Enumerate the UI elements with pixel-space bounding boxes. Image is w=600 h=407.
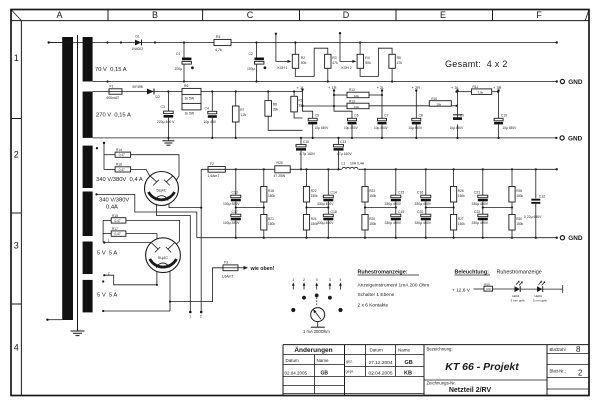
svg-text:R12: R12 [349, 88, 355, 92]
svg-text:C19: C19 [501, 113, 507, 117]
LED LED2 [533, 281, 547, 303]
svg-text:150k: 150k [369, 194, 376, 198]
resistor R12 [333, 88, 383, 98]
capacitor C1 [175, 43, 194, 82]
node KOH2 terminal + wiper wire [339, 32, 357, 70]
svg-text:3: 3 [14, 241, 19, 251]
svg-text:10µ 450V: 10µ 450V [315, 126, 330, 130]
svg-text:Name: Name [317, 358, 330, 363]
svg-text:220µ 400 V: 220µ 400 V [157, 120, 175, 124]
nodes on wire 3 [167, 90, 295, 92]
svg-text:R2: R2 [301, 56, 305, 60]
diode D2 [133, 85, 160, 99]
potentiometer R4 [357, 43, 371, 69]
svg-text:C21: C21 [474, 191, 480, 195]
svg-text:KB: KB [404, 370, 412, 376]
switch contact pads [291, 294, 342, 313]
node winding6 terminal 1 [102, 280, 104, 282]
svg-text:C4: C4 [205, 107, 209, 111]
svg-text:E: E [440, 10, 446, 20]
svg-text:270 V 0,15 A: 270 V 0,15 A [96, 113, 131, 119]
svg-text:330µ 400V: 330µ 400V [317, 202, 334, 206]
svg-text:Ruhestromanzeige: Ruhestromanzeige [497, 270, 542, 276]
capacitor C17 [223, 210, 241, 238]
fuse F2 [208, 162, 226, 178]
transformer secondary winding 6 (5V) [83, 280, 93, 313]
capacitor C14 [317, 169, 337, 214]
svg-text:10H 0,4A: 10H 0,4A [350, 161, 365, 165]
transformer core [77, 35, 79, 331]
capacitor C20 [415, 210, 432, 238]
wire 6 : GND rail bottom [197, 237, 557, 239]
svg-text:Gesamt: 4 x 2: Gesamt: 4 x 2 [445, 59, 508, 69]
capacitor C4 [204, 92, 217, 138]
svg-text:F2: F2 [210, 162, 214, 166]
svg-text:Beleuchtung:: Beleuchtung: [455, 270, 490, 276]
capacitor C22 [472, 210, 489, 238]
svg-text:1: 1 [292, 278, 294, 282]
capacitor C10 [296, 138, 316, 169]
svg-text:10µ 450V: 10µ 450V [503, 126, 518, 130]
svg-text:C15: C15 [398, 191, 404, 195]
resistor R29 [474, 282, 515, 291]
svg-text:F3: F3 [224, 261, 228, 265]
node winding5 terminal 2 + wire under tube2 [103, 272, 158, 286]
svg-text:+ 2R: + 2R [412, 85, 421, 90]
transformer secondary winding 3 (340V) [83, 146, 93, 188]
resistor R8 [265, 92, 303, 131]
svg-text:70 V 0,15 A: 70 V 0,15 A [95, 67, 127, 73]
svg-text:R11: R11 [473, 85, 479, 89]
svg-text:2: 2 [14, 150, 19, 160]
wire LED1 to LED2 [520, 288, 537, 290]
resistor R18 [261, 169, 276, 214]
svg-text:1 mA 200Ohm: 1 mA 200Ohm [303, 329, 330, 334]
svg-text:R20: R20 [277, 161, 283, 165]
svg-text:0,47: 0,47 [119, 153, 125, 157]
svg-text:10k: 10k [354, 94, 359, 98]
wire LED2 to end terminal [543, 285, 563, 293]
capacitor C7 (+2L) [374, 89, 389, 138]
svg-text:0,22µ 630V: 0,22µ 630V [524, 215, 542, 219]
svg-text:330µ 400V: 330µ 400V [472, 221, 489, 225]
resistor R14 [96, 142, 179, 181]
svg-text:330µ 400V: 330µ 400V [385, 221, 402, 225]
svg-text:39k: 39k [273, 108, 279, 112]
capacitor C16 [415, 169, 432, 214]
wire winding4 to connector 1 [97, 194, 197, 237]
svg-text:150k: 150k [458, 194, 465, 198]
node winding5 terminal 1 + wire to tube2 [103, 239, 151, 244]
svg-text:1: 1 [189, 315, 191, 319]
nodes on wire 5 [235, 168, 558, 170]
svg-text:C6: C6 [354, 113, 358, 117]
nodes on wire 2 [106, 80, 558, 82]
svg-text:100µ 350V: 100µ 350V [223, 202, 240, 206]
svg-text:gepr.: gepr. [346, 370, 354, 374]
svg-text:50k: 50k [365, 61, 371, 65]
fuse F1 [107, 85, 123, 101]
svg-text:7,5k: 7,5k [478, 90, 484, 94]
svg-text:C3: C3 [161, 105, 165, 109]
capacitor C3 [157, 92, 175, 138]
svg-text:Netzteil 2/RV: Netzteil 2/RV [449, 387, 492, 394]
svg-text:C14: C14 [331, 191, 337, 195]
svg-text:47 25W: 47 25W [274, 174, 286, 178]
svg-text:Datum: Datum [286, 358, 300, 363]
svg-text:47k: 47k [397, 61, 403, 65]
svg-text:Datum: Datum [370, 348, 384, 353]
svg-text:Änderungen: Änderungen [294, 346, 332, 354]
svg-text:KT 66 - Projekt: KT 66 - Projekt [445, 361, 519, 373]
svg-text:L1: L1 [342, 161, 346, 165]
svg-text:330µ 400V: 330µ 400V [415, 202, 432, 206]
resistor R15 [103, 214, 180, 244]
wire F3 to arrow "wie oben" [238, 266, 275, 272]
chassis ground [71, 331, 85, 336]
row labels 1-4 [14, 53, 19, 353]
wire 4 : GND rail middle [93, 137, 557, 139]
svg-text:Anzeigeinstrument 1mA 200 Ohm: Anzeigeinstrument 1mA 200 Ohm [358, 283, 430, 289]
svg-text:150k: 150k [268, 194, 275, 198]
svg-text:C10: C10 [303, 140, 309, 144]
column separators [108, 10, 493, 21]
svg-text:D: D [343, 10, 350, 20]
wire midpoint link cell4 [425, 206, 455, 208]
svg-text:2 x 6 Kontakte: 2 x 6 Kontakte [358, 303, 389, 309]
svg-text:1: 1 [14, 53, 19, 63]
svg-text:0,47: 0,47 [119, 168, 125, 172]
svg-text:5 V 5 A: 5 V 5 A [97, 293, 117, 299]
svg-text:GND: GND [568, 135, 583, 142]
transformer secondary winding 1 (70V) [83, 37, 93, 82]
svg-text:330µ 400V: 330µ 400V [385, 202, 402, 206]
resistor R7b vertical [232, 92, 246, 138]
svg-text:100µ: 100µ [175, 67, 183, 71]
column labels A-F [56, 10, 542, 20]
svg-text:4,7k: 4,7k [215, 48, 222, 52]
svg-text:1N4002: 1N4002 [132, 47, 144, 51]
capacitor C18 [317, 210, 337, 238]
wire primary top lead [49, 42, 63, 44]
svg-text:C7: C7 [384, 113, 388, 117]
svg-text:R18: R18 [268, 189, 274, 193]
svg-text:C5: C5 [315, 113, 319, 117]
LED LED1 [511, 281, 525, 303]
svg-text:Schalter 1 Ebene: Schalter 1 Ebene [358, 292, 395, 298]
svg-text:R25: R25 [369, 217, 375, 221]
capacitor C6 (+1R) [333, 89, 359, 138]
title block texts [285, 345, 584, 394]
resistor R1 [214, 35, 231, 52]
svg-text:C2: C2 [249, 52, 253, 56]
svg-text:R9: R9 [298, 99, 302, 103]
svg-text:100µ 350V: 100µ 350V [223, 221, 240, 225]
svg-text:wie oben!: wie oben! [250, 266, 275, 272]
wire tube1 cathode to riser [169, 204, 201, 208]
resistor R21 [261, 215, 276, 238]
nodes on wire 1 [106, 41, 558, 43]
svg-text:R23: R23 [369, 189, 375, 193]
svg-text:R4: R4 [365, 56, 369, 60]
svg-text:47µ 160V: 47µ 160V [337, 152, 352, 156]
svg-text:C8: C8 [419, 113, 423, 117]
wire midpoint link cell3 [364, 206, 397, 208]
diode D1 [132, 35, 144, 51]
svg-text:R1: R1 [216, 35, 221, 39]
svg-text:0: 0 [316, 278, 318, 282]
svg-text:B: B [152, 10, 158, 20]
svg-text:GND: GND [568, 235, 583, 242]
svg-text:5Ц4С: 5Ц4С [158, 255, 168, 260]
svg-text:GND: GND [568, 79, 583, 86]
svg-text:R28: R28 [516, 189, 522, 193]
svg-text:BY398: BY398 [133, 85, 143, 89]
resistor R5 [389, 54, 402, 81]
svg-text:330µ 400V: 330µ 400V [317, 221, 334, 225]
resistor R27 [451, 215, 466, 238]
svg-text:+ 3R: + 3R [493, 85, 502, 90]
ground symbol on wire 4 [162, 138, 174, 145]
svg-text:C17: C17 [232, 210, 238, 214]
svg-text:5Ц4С: 5Ц4С [156, 188, 166, 193]
resistor R30 [509, 215, 524, 238]
transformer primary winding [62, 37, 73, 320]
svg-text:Blatt-Nr.:: Blatt-Nr.: [550, 368, 566, 373]
svg-text:+ 1R: + 1R [328, 85, 337, 90]
svg-text:R27: R27 [458, 217, 464, 221]
capacitor C13 [223, 169, 241, 214]
svg-text:47k: 47k [332, 61, 338, 65]
svg-text:R10: R10 [431, 97, 437, 101]
svg-text:0,4A: 0,4A [106, 205, 118, 211]
svg-text:10µ 450V: 10µ 450V [450, 126, 465, 130]
fuse F3 [222, 261, 239, 279]
resistor R26 [451, 169, 466, 214]
svg-text:Zeichnungs-Nr.: Zeichnungs-Nr. [427, 381, 456, 386]
capacitor C9 (+3L) [450, 89, 465, 138]
svg-text:+ 12,6 V: + 12,6 V [452, 287, 471, 293]
nodes on wire 6 [235, 237, 558, 239]
svg-text:10µ 450V: 10µ 450V [374, 126, 389, 130]
svg-text:C22: C22 [474, 210, 480, 214]
resistor R10 [429, 97, 457, 107]
svg-text:R16: R16 [116, 163, 122, 167]
svg-text:A: A [56, 10, 62, 20]
svg-text:150k: 150k [311, 194, 318, 198]
svg-text:340 V/380V 0,4 A: 340 V/380V 0,4 A [96, 177, 143, 183]
transformer secondary winding 4 (340V) [83, 192, 93, 237]
svg-text:GB: GB [405, 360, 413, 366]
inductor L1 [342, 161, 365, 171]
svg-text:C13: C13 [232, 191, 238, 195]
svg-text:F1: F1 [110, 85, 114, 89]
wire tube2 cathode output [169, 268, 223, 311]
svg-text:50k: 50k [301, 61, 307, 65]
svg-text:5 mm gelb: 5 mm gelb [533, 298, 547, 302]
wire riser to F2 and down to connector 2 [200, 169, 203, 318]
capacitor C8 (+2R) [408, 89, 423, 138]
svg-text:R8: R8 [273, 103, 277, 107]
node primary bottom terminal [46, 319, 48, 321]
svg-text:+ 2L: + 2L [377, 85, 386, 90]
resistor R7 (1k 5W parallel) [182, 95, 201, 116]
svg-text:R30: R30 [516, 217, 522, 221]
svg-text:330µ 400V: 330µ 400V [472, 202, 489, 206]
capacitor C5 (+1L) [301, 89, 329, 138]
svg-text:KOH 2: KOH 2 [342, 66, 352, 70]
svg-text:C20: C20 [417, 210, 423, 214]
svg-text:C11: C11 [340, 140, 346, 144]
svg-text:0,47: 0,47 [115, 219, 121, 223]
potentiometer R2 [292, 43, 306, 69]
transformer secondary winding 2 (270V) [83, 92, 93, 138]
resistor R9 [291, 92, 304, 119]
svg-text:2: 2 [578, 369, 583, 378]
node connector 1 [189, 311, 192, 319]
svg-text:R21: R21 [268, 217, 274, 221]
node primary top terminal [48, 41, 50, 43]
wire winding6 terminal 2 [102, 310, 170, 312]
svg-text:C18: C18 [331, 210, 337, 214]
text Ruhestromanzeige block [358, 270, 430, 309]
svg-text:R5: R5 [397, 56, 401, 60]
svg-text:10k: 10k [354, 105, 359, 109]
svg-text:Name: Name [398, 348, 411, 353]
svg-text:0,47: 0,47 [115, 232, 121, 236]
resistor R23 [362, 169, 377, 214]
capacitor C15 [385, 169, 405, 214]
capacitor C21 [472, 169, 489, 214]
svg-text:1k 5W: 1k 5W [185, 96, 195, 100]
bias test point labels [297, 85, 502, 90]
svg-text:R6: R6 [184, 84, 188, 88]
svg-text:150k: 150k [516, 194, 523, 198]
svg-text:+ 3L: + 3L [451, 85, 460, 90]
svg-text:150k: 150k [268, 222, 275, 226]
svg-text:470: 470 [486, 287, 491, 291]
svg-text:4: 4 [340, 278, 342, 282]
node winding4 top terminal [95, 193, 97, 195]
ground symbol wire4 right end [560, 135, 583, 142]
svg-text:340 V/380V: 340 V/380V [99, 198, 129, 204]
svg-text:KOH 1: KOH 1 [278, 66, 288, 70]
svg-text:3 mm gelb: 3 mm gelb [511, 298, 525, 302]
svg-text:330µ 400V: 330µ 400V [415, 221, 432, 225]
wire midpoint link cell2 [305, 206, 329, 208]
svg-text:R3: R3 [332, 56, 336, 60]
svg-text:R13: R13 [349, 99, 355, 103]
svg-text:R26: R26 [458, 189, 464, 193]
svg-text:150k: 150k [516, 222, 523, 226]
resistor R22 [303, 169, 318, 214]
svg-text:150k: 150k [369, 222, 376, 226]
svg-text:C1: C1 [176, 52, 180, 56]
svg-text:02.04.2005: 02.04.2005 [369, 371, 393, 377]
svg-text:27.12.2004: 27.12.2004 [369, 360, 393, 366]
svg-text:1,6AmT: 1,6AmT [222, 274, 234, 278]
svg-text:4: 4 [14, 343, 19, 353]
node KOH1 terminal + wiper wire [275, 33, 292, 70]
svg-text:C9: C9 [460, 113, 464, 117]
svg-text:GB: GB [321, 370, 329, 376]
resistor R3 [325, 54, 338, 81]
meter M1 [303, 308, 330, 335]
dashed link to meter [316, 298, 318, 306]
resistor R24 [303, 215, 318, 238]
svg-text:R29: R29 [484, 282, 490, 286]
capacitor C2 [247, 43, 266, 82]
svg-text:10µ 450: 10µ 450 [204, 120, 216, 124]
wire 2 : GND rail top [93, 81, 557, 83]
wire midpoint link cell5 [482, 206, 513, 208]
resistor R11 [455, 85, 499, 95]
svg-text:100µ: 100µ [247, 67, 255, 71]
svg-text:2: 2 [303, 278, 305, 282]
capacitor C19b [385, 210, 405, 238]
svg-text:1,2k: 1,2k [240, 113, 246, 117]
capacitor C12 film [524, 169, 545, 237]
svg-text:2: 2 [200, 315, 202, 319]
svg-text:600mAT: 600mAT [107, 96, 120, 100]
svg-text:1,6AmT: 1,6AmT [208, 174, 220, 178]
svg-text:Ruhestromanzeige:: Ruhestromanzeige: [358, 270, 408, 276]
resistor R6 (1k 5W in line) [182, 84, 201, 100]
resistor R17 [103, 227, 157, 239]
resistor R16 [104, 163, 150, 177]
ground symbol wire6 right end [560, 235, 583, 242]
title block [283, 345, 589, 396]
switch contact arrows 1..4 [292, 278, 342, 290]
capacitor C11 [334, 138, 353, 169]
resistor R13 [301, 99, 429, 108]
svg-text:Blattzahl: Blattzahl [550, 347, 566, 352]
svg-text:C16: C16 [417, 191, 423, 195]
svg-text:5 V 5 A: 5 V 5 A [97, 251, 117, 257]
wire R2 bottom to R3 top [295, 48, 328, 76]
wire tube1 filament to connector 1 [156, 205, 190, 312]
resistor R20 [274, 161, 291, 178]
svg-text:F: F [536, 10, 542, 20]
wire R4 bottom to R5 top [360, 48, 392, 76]
svg-text:10k: 10k [436, 102, 441, 106]
svg-text:8: 8 [576, 345, 581, 354]
svg-text:C19: C19 [398, 210, 404, 214]
svg-text:gez.: gez. [346, 360, 353, 364]
wire 5 : HT filter rail [201, 168, 557, 170]
wire primary bottom lead [47, 319, 62, 321]
wire R15/R17 common to winding5 terminal [102, 220, 104, 242]
svg-text:150k: 150k [458, 222, 465, 226]
svg-text:D2: D2 [156, 95, 160, 99]
row separators [11, 119, 21, 305]
svg-text:R7: R7 [240, 108, 244, 112]
svg-text:10µ 450V: 10µ 450V [344, 126, 359, 130]
wire midpoint link cell1 [235, 206, 265, 208]
resistor R28 [509, 169, 524, 214]
ground symbol wire2 [560, 79, 583, 86]
svg-text:10µ 450V: 10µ 450V [408, 126, 423, 130]
svg-text:R24: R24 [311, 217, 317, 221]
resistor R25 [362, 215, 377, 238]
wire 1 : 70V top rail [49, 42, 557, 44]
wire 3 : 270V rail [93, 91, 303, 93]
svg-text:+ 1L: + 1L [297, 85, 306, 90]
svg-text:Bezeichnung:: Bezeichnung: [427, 347, 453, 352]
svg-text:02.04.2005: 02.04.2005 [285, 370, 308, 375]
svg-text:4,7µ 160V: 4,7µ 160V [300, 152, 316, 156]
rectifier tube V1 [145, 172, 179, 206]
